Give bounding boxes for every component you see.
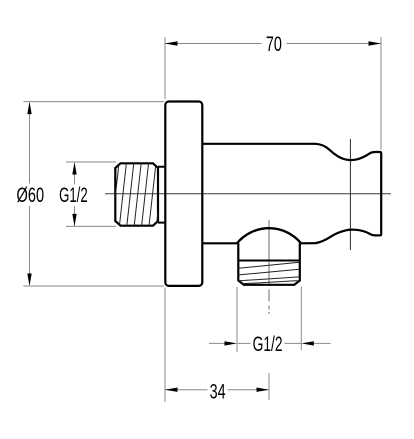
connector neck: [158, 167, 166, 223]
dim G1/2 bottom line: [209, 342, 331, 344]
centerline horizontal axis: [105, 193, 391, 195]
body bottom line: [202, 242, 237, 244]
outlet thread top line: [238, 260, 299, 262]
dim 34 extension tick right: [268, 373, 270, 400]
svg-text:Ø60: Ø60: [17, 184, 45, 207]
dim G1/2 left arrow top: [72, 162, 76, 175]
svg-text:G1/2: G1/2: [253, 333, 283, 356]
dim 70 arrow left: [165, 41, 178, 45]
dim 34 line: [165, 389, 269, 391]
thread hatch lines: [112, 163, 163, 226]
dim D60 arrow top: [27, 102, 31, 115]
dim 70 arrow right: [369, 41, 382, 45]
dim D60 extension line top: [24, 101, 165, 103]
dim G1/2 left extension line bottom: [66, 225, 116, 227]
dim 70 extension line left: [164, 37, 166, 99]
dim G1/2 bottom extension line left: [236, 287, 238, 352]
dim D60 extension line bottom: [23, 285, 164, 287]
dim 34 arrow right: [257, 388, 270, 392]
dim G1/2 bottom extension line right: [300, 287, 302, 351]
body top line: [202, 143, 316, 145]
dim 34 extension line left: [164, 288, 166, 403]
svg-text:34: 34: [210, 380, 226, 403]
wall flange (side view): [165, 102, 202, 286]
dim 34 arrow left: [165, 388, 178, 392]
dim D60 line: [29, 103, 31, 285]
dim G1/2 left line: [74, 164, 76, 226]
dim 70 extension line right: [380, 37, 382, 150]
svg-text:70: 70: [266, 33, 282, 56]
centerline groove vertical: [349, 139, 351, 250]
dim G1/2 left arrow bottom: [72, 214, 76, 227]
dim G1/2 bottom arrow left: [225, 341, 238, 345]
dim D60 arrow bottom: [27, 274, 31, 287]
outlet thread helix lines: [239, 262, 299, 284]
holder knob and neck profile: [301, 144, 381, 244]
dim G1/2 left extension line top: [66, 161, 116, 163]
dim 70 line: [165, 43, 381, 45]
centerline outlet vertical: [268, 220, 270, 314]
dim G1/2 bottom arrow right: [301, 341, 314, 345]
threaded wall connector G1/2: [115, 163, 158, 225]
outlet threaded section outline: [238, 243, 299, 284]
outlet dome: [237, 228, 301, 243]
svg-text:G1/2: G1/2: [59, 184, 88, 207]
